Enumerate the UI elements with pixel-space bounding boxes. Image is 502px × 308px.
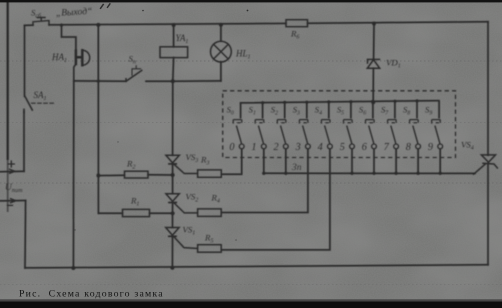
keypad bus junction dots	[261, 99, 419, 104]
resistor R3	[198, 170, 222, 177]
wire right vertical lower	[487, 164, 489, 265]
node 8 circle	[416, 144, 421, 149]
reset bus under keypad	[264, 172, 475, 174]
svg-text:„Выход“: „Выход“	[56, 6, 93, 19]
junction	[284, 172, 287, 175]
junction top rail / YA1	[172, 23, 176, 27]
push-button S8	[410, 101, 419, 144]
junction top rail / VD1 feed	[372, 22, 376, 26]
junction	[372, 172, 375, 175]
junction	[394, 172, 397, 175]
junction	[350, 172, 353, 175]
svg-text:Рис. Схема кодового замка: Рис. Схема кодового замка	[19, 289, 164, 300]
wire node 9 to reset bus	[439, 149, 441, 174]
wire +rail vertical B	[97, 25, 99, 213]
push-button S9	[432, 101, 441, 144]
dashed keypad enclosure	[223, 91, 456, 158]
wire branch to Sp switch	[74, 80, 126, 82]
push-button S6	[366, 101, 375, 143]
junction chain / bottom rail	[170, 266, 174, 270]
wire node 2 to reset bus	[285, 149, 287, 174]
wire VD1 to keypad bus	[372, 68, 374, 102]
buzzer HA1 (telephone capsule)	[74, 50, 90, 80]
wire bottom-left vertical (minus feed)	[24, 201, 27, 268]
node 3 circle	[306, 144, 311, 149]
junction Sp wire / vertical B	[97, 80, 100, 83]
node 1 circle	[261, 144, 266, 149]
resistor R1	[98, 209, 172, 216]
wire bottom rail	[25, 265, 488, 268]
plus terminal of Upit	[0, 161, 24, 173]
keypad common bus	[241, 101, 439, 103]
node 9 circle	[438, 144, 443, 149]
thyristor VS2	[166, 194, 198, 213]
vertical chain wire from junction to VS3	[172, 81, 174, 155]
node 0 circle	[239, 144, 244, 149]
wire top rail left segment	[25, 24, 34, 26]
wire feed from top rail to keypad	[373, 24, 375, 59]
junction R2 / chain	[171, 173, 175, 177]
wire node 4 down to R5	[221, 149, 330, 250]
wire top rail middle	[49, 23, 286, 25]
switch Sp (door button)	[126, 66, 142, 82]
node 2 circle	[283, 144, 288, 149]
wire junction to HL1 bottom	[173, 80, 221, 82]
resistor R6 (series in top rail)	[286, 20, 308, 27]
junction HA1 return / bottom rail	[71, 266, 75, 270]
svg-text:9: 9	[428, 142, 433, 153]
scan specks and marks	[74, 3, 248, 241]
wire left vertical below SA1	[23, 111, 25, 171]
push-button S1	[255, 103, 264, 144]
wire left vertical above SA1	[24, 25, 26, 96]
svg-text:4: 4	[318, 142, 323, 153]
svg-text:7: 7	[384, 142, 390, 153]
node 6 circle	[372, 144, 377, 149]
svg-text:8: 8	[406, 142, 411, 153]
wire VS1 to bottom rail	[171, 236, 173, 267]
switch SA1	[24, 97, 54, 113]
svg-text:3: 3	[295, 142, 301, 153]
wire node 7 to reset bus	[395, 149, 397, 174]
push-button S7	[388, 101, 397, 144]
wire HA1 return down to bottom rail	[72, 81, 74, 268]
thyristor VS4	[474, 155, 498, 174]
junction top rail / HL1	[219, 23, 223, 27]
svg-text:Зп: Зп	[292, 163, 302, 173]
page edge dark line left	[7, 0, 9, 160]
wire top rail right	[308, 22, 489, 23]
junction top rail / vertical B	[96, 23, 100, 27]
wire VS3 to R2 junction	[172, 164, 174, 194]
wire Sp to YA1 junction	[146, 80, 173, 82]
wire node 5 to reset bus	[351, 149, 353, 174]
thyristor VS3	[166, 155, 198, 173]
junction	[416, 172, 419, 175]
node 4 circle	[328, 144, 333, 149]
push-button S4	[321, 102, 330, 144]
junction	[262, 172, 265, 175]
wire node 0 to R3	[221, 149, 241, 175]
zener diode VD1	[367, 59, 379, 68]
push-button S5	[344, 102, 353, 144]
resistor R4	[198, 209, 222, 217]
junction YA1 bottom node	[171, 79, 175, 83]
wire VS2 to R1 junction	[172, 203, 174, 228]
junction	[439, 172, 442, 175]
resistor R5	[198, 245, 222, 253]
wire node 1 to reset bus	[263, 149, 265, 174]
scan raster artifact lines	[0, 61, 502, 285]
node 5 circle	[350, 144, 355, 149]
junction R1 / chain	[171, 211, 175, 215]
node 7 circle	[394, 144, 399, 149]
wire right vertical	[487, 22, 489, 155]
junction R2 / vertical B	[96, 174, 100, 178]
dark photo borders	[0, 0, 502, 2]
svg-text:2: 2	[274, 142, 279, 153]
thyristor VS1	[166, 228, 198, 249]
svg-text:5: 5	[340, 142, 345, 153]
push-button S3	[299, 102, 308, 144]
relay coil YA1	[160, 25, 188, 81]
lamp HL1	[211, 25, 232, 81]
push-button S0	[233, 103, 242, 144]
svg-text:0: 0	[229, 142, 234, 153]
push-button S2	[277, 102, 286, 143]
wire drop to buzzer HA1	[62, 25, 76, 50]
junction top rail / HA1 drop	[60, 24, 63, 27]
switch S_sb (reset button)	[33, 18, 49, 26]
svg-text:1: 1	[251, 142, 256, 153]
wire node 3 down to R4	[221, 149, 308, 213]
wire node 6 to reset bus	[373, 149, 375, 174]
wire node 8 to reset bus	[417, 149, 419, 174]
junction VD1 / keypad bus	[371, 100, 375, 104]
minus terminal of Upit	[0, 199, 26, 206]
resistor R2	[98, 171, 172, 178]
